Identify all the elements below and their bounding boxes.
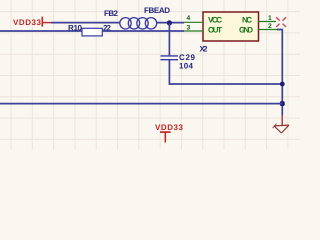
resistor R10 <box>82 28 102 36</box>
pin 4 (VCC) <box>184 15 203 23</box>
pin 1 (NC) <box>259 15 277 22</box>
IC X2 body <box>203 12 259 41</box>
junction at C29 tap <box>167 20 172 25</box>
svg-text:X2: X2 <box>200 44 209 53</box>
wire left edge to R10 <box>0 30 83 32</box>
wire bottom rail left edge to ground node <box>0 103 282 105</box>
svg-text:FB2: FB2 <box>104 9 119 18</box>
wire junction down to C29 <box>168 23 170 56</box>
junction cap return / ground wire <box>280 82 285 87</box>
power port VDD33 (top left) <box>13 17 51 27</box>
wire pin 2 down to ground <box>277 30 282 116</box>
svg-text:FBEAD: FBEAD <box>144 6 170 15</box>
capacitor C29 <box>161 56 179 60</box>
pin 2 (GND) <box>259 23 279 30</box>
svg-text:VDD33: VDD33 <box>13 18 42 27</box>
svg-text:VDD33: VDD33 <box>155 123 184 132</box>
junction bottom wire / ground wire <box>280 101 285 106</box>
ground (power ground symbol) <box>273 115 290 133</box>
wire VDD33 to ferrite bead <box>51 22 121 24</box>
wire C29 bottom to ground net <box>169 60 282 84</box>
svg-text:1: 1 <box>268 15 272 22</box>
power port VDD33 (bottom) <box>155 123 184 143</box>
svg-text:VCC: VCC <box>208 16 222 25</box>
svg-text:GND: GND <box>239 25 253 34</box>
ferrite bead FB2 (4 circles) <box>120 18 157 29</box>
wire R10 to pin 3 <box>102 30 184 32</box>
pin 3 (OUT) <box>184 25 203 32</box>
svg-text:2: 2 <box>268 23 272 30</box>
wire ferrite bead to pin 4 <box>156 22 184 24</box>
no-ERC marker on pin 1 <box>276 17 286 27</box>
svg-text:R10: R10 <box>68 24 83 33</box>
svg-text:NC: NC <box>242 16 252 25</box>
svg-text:3: 3 <box>187 25 191 32</box>
svg-text:4: 4 <box>187 15 191 22</box>
svg-text:104: 104 <box>179 62 194 71</box>
svg-text:OUT: OUT <box>208 25 222 34</box>
